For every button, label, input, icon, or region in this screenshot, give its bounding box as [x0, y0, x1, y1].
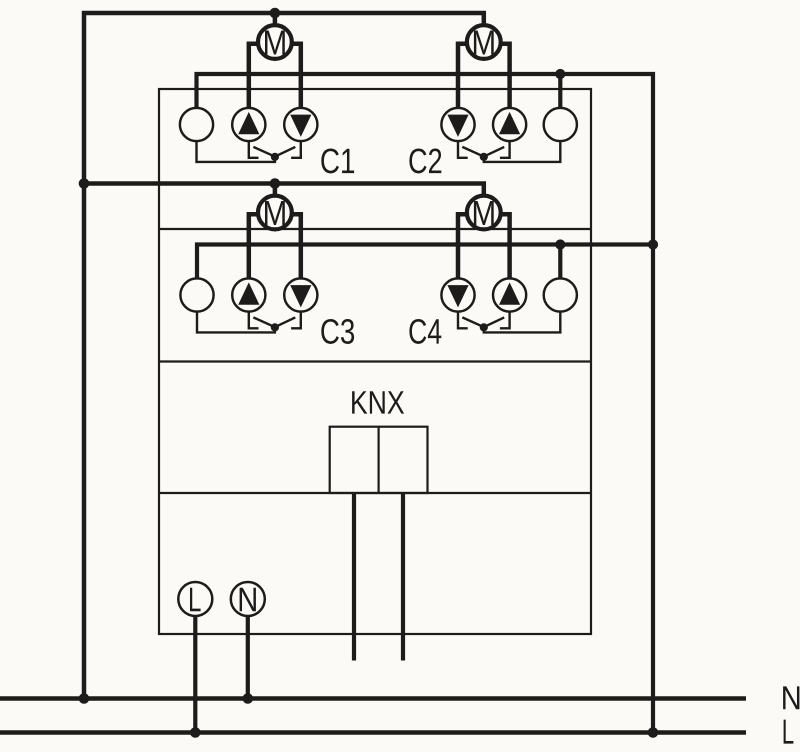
switch C3 up-contact stub: [249, 310, 259, 328]
wire motor M1 left stub: [249, 44, 262, 111]
switch C2 changeover contact: [462, 147, 504, 157]
wire L terminal lead: [193, 612, 197, 733]
switch C3 changeover contact: [253, 317, 295, 327]
switch C1 pivot dot: [271, 153, 279, 161]
section divider 1: [159, 228, 591, 230]
terminal C4 up arrow: [499, 282, 520, 304]
device enclosure box: [159, 89, 591, 634]
junction dot C4 common riser: [555, 239, 565, 249]
junction dot C2 common riser: [555, 69, 565, 79]
switch C2 up-contact stub: [500, 140, 510, 158]
terminal C4 common circle: [544, 278, 577, 311]
label N bus: [783, 686, 799, 709]
section divider 3: [159, 492, 591, 494]
wire motor M3 left stub: [249, 214, 262, 281]
terminal N circle: [231, 582, 265, 616]
terminal C2 up circle: [493, 108, 526, 141]
terminal C2 common circle: [544, 108, 577, 141]
terminal C1 common circle: [180, 108, 213, 141]
switch C1 common link: [197, 140, 275, 162]
motor M4 letter: [474, 201, 494, 225]
switch C1 up-contact stub: [249, 140, 259, 158]
wire C4 common riser: [558, 245, 562, 282]
section divider 2: [159, 360, 591, 362]
motor M4 circle: [467, 196, 501, 230]
terminal C1 up arrow: [238, 112, 259, 134]
label C4: [409, 319, 426, 344]
switch C2 common link: [484, 140, 561, 162]
junction dot right riser row2 feed: [648, 239, 658, 249]
wire N terminal lead: [246, 612, 250, 699]
terminal C3 common circle: [180, 278, 213, 311]
junction dot L terminal on L bus: [190, 727, 201, 738]
wire motor M3 right stub: [289, 214, 301, 281]
junction dot above motor M1: [270, 8, 281, 19]
KNX terminal divider: [378, 427, 380, 493]
wire KNX bus lead 1: [352, 493, 356, 661]
switch C1 changeover contact: [253, 147, 295, 157]
wire motor M2 right stub: [497, 44, 510, 111]
switch C3 common link: [197, 310, 275, 332]
terminal C4 down arrow: [447, 285, 468, 307]
terminal C3 down circle: [284, 278, 317, 311]
motor M3 circle: [258, 196, 292, 230]
terminal C4 up circle: [493, 278, 526, 311]
motor M2 circle: [467, 25, 501, 59]
switch C4 down-contact stub: [458, 310, 468, 328]
wire C3 common riser and row2 L feed: [197, 245, 653, 282]
wire motor M3 feed riser: [273, 184, 278, 199]
label C1: [321, 148, 339, 173]
wire C1 common riser, row1 L feed, right L riser: [197, 74, 654, 733]
label L bus: [784, 720, 794, 744]
label C2: [409, 148, 426, 173]
switch C4 pivot dot: [480, 323, 488, 331]
wire motor M1 right stub: [289, 44, 301, 111]
label KNX: [352, 391, 367, 413]
junction dot left riser row2 branch: [79, 178, 90, 189]
switch C2 pivot dot: [480, 153, 488, 161]
wire motor M4 left stub: [458, 214, 471, 281]
motor M1 letter: [265, 31, 285, 55]
wire motor M1 feed riser: [273, 13, 278, 28]
terminal L circle: [178, 582, 212, 616]
terminal C2 down arrow: [447, 115, 468, 137]
junction dot right riser on L bus: [648, 727, 659, 738]
terminal C2 up arrow: [499, 112, 520, 134]
switch C4 common link: [484, 310, 561, 332]
wire motor M2 left stub: [458, 44, 471, 111]
switch C3 pivot dot: [271, 323, 279, 331]
motor M3 letter: [265, 201, 285, 225]
motor M2 letter: [474, 31, 494, 55]
terminal C3 up circle: [232, 278, 265, 311]
junction dot above motor M3: [270, 178, 281, 189]
wire left N riser and row1 top wire to motor M2: [84, 13, 484, 699]
wire L bus line: [0, 730, 746, 735]
terminal C3 up arrow: [238, 282, 259, 304]
wire row2 top wire to motor M4: [84, 184, 484, 197]
junction dot left riser on N bus: [79, 693, 90, 704]
wire C2 common riser: [558, 74, 562, 111]
label C3: [321, 319, 339, 344]
terminal C3 down arrow: [290, 285, 311, 307]
wire N bus line: [0, 696, 746, 701]
terminal C1 down circle: [284, 108, 317, 141]
terminal C4 down circle: [441, 278, 474, 311]
switch C4 up-contact stub: [500, 310, 510, 328]
terminal C2 down circle: [441, 108, 474, 141]
switch C1 down-contact stub: [291, 140, 301, 158]
wire KNX bus lead 2: [401, 493, 405, 661]
terminal C1 up circle: [232, 108, 265, 141]
switch C3 down-contact stub: [291, 310, 301, 328]
switch C4 changeover contact: [462, 317, 504, 327]
junction dot N terminal on N bus: [243, 693, 254, 704]
KNX bus terminal block: [330, 427, 428, 493]
terminal N letter: [240, 588, 256, 612]
wire motor M4 right stub: [497, 214, 510, 281]
motor M1 circle: [258, 25, 292, 59]
switch C2 down-contact stub: [458, 140, 468, 158]
terminal L letter: [190, 588, 201, 612]
terminal C1 down arrow: [290, 115, 311, 137]
